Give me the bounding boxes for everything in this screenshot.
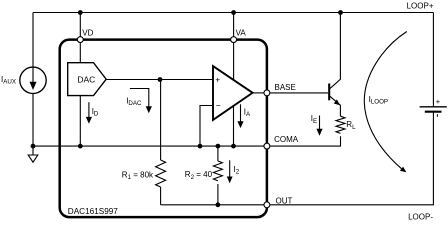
junction op-amp common (231, 144, 236, 149)
wire VA drop to op-amp top (233, 13, 235, 81)
junction collector on rail (338, 10, 343, 15)
svg-text:IAUX: IAUX (1, 75, 16, 86)
wire ground rail COMA net (33, 145, 264, 147)
wire current source to ground node (32, 94, 34, 147)
terminal BASE (264, 90, 270, 96)
wire DAC output to op-amp plus input (106, 79, 213, 81)
battery short plate (425, 111, 442, 113)
wire OUT rail inside (161, 204, 264, 206)
battery minus sign (437, 114, 438, 117)
emitter arrowhead (334, 99, 340, 105)
terminal VD (77, 37, 83, 43)
ground stub (32, 146, 34, 154)
svg-text:IE: IE (311, 114, 317, 125)
wire R2 bottom (217, 184, 219, 205)
current source IAUX circle (20, 67, 46, 93)
transistor Q1 base bar (328, 84, 330, 101)
battery long plate (420, 106, 447, 108)
svg-text:IDAC: IDAC (126, 97, 142, 108)
svg-text:DAC: DAC (77, 74, 95, 84)
transistor emitter (330, 96, 341, 116)
svg-text:COMA: COMA (274, 135, 299, 144)
svg-text:BASE: BASE (275, 83, 296, 92)
svg-text:LOOP+: LOOP+ (407, 2, 434, 11)
junction DAC ground (78, 144, 83, 149)
wire DAC bottom to ground rail (79, 96, 81, 147)
resistor R1 (156, 160, 166, 187)
svg-text:R1 = 80k: R1 = 80k (122, 171, 154, 182)
transistor collector (330, 13, 341, 89)
IC box DAC161S997 (60, 40, 267, 218)
svg-text:VD: VD (82, 29, 93, 38)
svg-text:ID: ID (92, 107, 99, 118)
arrow IA (240, 104, 242, 121)
wire minus input feedback (200, 106, 213, 147)
resistor R2 (213, 161, 222, 181)
svg-text:I2: I2 (234, 165, 240, 176)
arrow ILOOP arc (364, 32, 407, 169)
arrow IDAC (130, 89, 149, 107)
wire op-amp common leg (233, 106, 235, 146)
terminal OUT (264, 202, 270, 208)
svg-text:R2 = 40: R2 = 40 (185, 170, 213, 181)
svg-text:RL: RL (346, 120, 356, 131)
wire R1 bottom to OUT rail (160, 187, 162, 205)
wire top rail LOOP+ (33, 12, 433, 14)
svg-text:OUT: OUT (276, 196, 293, 205)
wire battery to LOOP- rail (270, 112, 433, 205)
wire right side to battery (432, 13, 434, 107)
wire BASE to transistor (270, 92, 328, 94)
wire RL bottom to COMA (270, 136, 340, 146)
wire VD drop (79, 13, 81, 63)
svg-text:VA: VA (236, 29, 247, 38)
svg-text:+: + (436, 97, 441, 106)
junction VD on rail (78, 10, 83, 15)
junction node A (158, 77, 163, 82)
junction minus feedback (198, 144, 203, 149)
junction ground node (31, 144, 36, 149)
resistor RL (336, 116, 345, 133)
svg-text:IA: IA (244, 107, 251, 118)
svg-text:LOOP-: LOOP- (408, 213, 433, 222)
arrow IE (319, 116, 321, 130)
junction R2 bottom (216, 202, 221, 207)
wire node A down to R1 (160, 80, 162, 161)
svg-text:−: − (216, 100, 221, 110)
current source arrow (32, 68, 34, 84)
wire op-amp output to BASE (253, 92, 264, 94)
ground symbol (28, 155, 38, 162)
terminal VA (231, 37, 237, 43)
arrow ID (88, 102, 90, 117)
junction R2 top (216, 144, 221, 149)
junction VA on rail (231, 10, 236, 15)
wire R2 top (217, 146, 219, 161)
arrow I2 (229, 160, 231, 177)
svg-text:+: + (215, 75, 220, 85)
DAC block (68, 63, 107, 96)
op-amp U1 (213, 66, 253, 120)
svg-text:DAC161S997: DAC161S997 (68, 207, 119, 216)
svg-text:ILOOP: ILOOP (369, 95, 388, 106)
terminal COMA (264, 143, 270, 149)
wire left drop to current source (32, 13, 34, 68)
